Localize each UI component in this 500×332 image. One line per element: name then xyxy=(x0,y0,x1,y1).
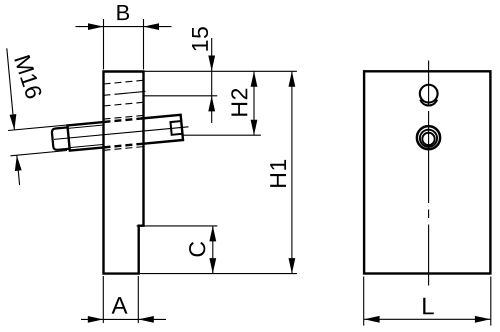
dimension B: extension line right xyxy=(143,19,145,70)
dimension H1: lower arrow (down) xyxy=(289,258,296,274)
dimension M16: lower arrow xyxy=(15,155,22,171)
top edge extension line to the right xyxy=(145,70,297,72)
front view: plate rectangle xyxy=(364,71,490,273)
dimension L: right arrow xyxy=(475,316,491,323)
front view: lower hole outer circle xyxy=(417,126,440,149)
dimension M16: upper tail line xyxy=(7,48,15,130)
dimension M16: extension line top (screw top edge extended) xyxy=(8,125,67,131)
dimension M16: lower tail line xyxy=(17,155,20,185)
dimension A: right arrow xyxy=(138,316,154,323)
dimension L: label L xyxy=(423,298,434,315)
dimension L: dimension line xyxy=(364,318,490,320)
upper threaded hole hidden line (bottom) xyxy=(104,102,144,106)
screw body left section xyxy=(67,122,106,151)
bottom edge extension line to the right xyxy=(140,273,297,275)
dimension L: extension line right xyxy=(490,277,492,326)
dimension A: label A xyxy=(112,297,128,314)
front view: screw end circle xyxy=(420,130,437,147)
dimension 15: lower arrow (up) xyxy=(208,96,215,112)
upper threaded hole hidden line (top) xyxy=(104,80,144,84)
dimension A: left arrow xyxy=(88,316,104,323)
dimension 15: dimension line xyxy=(211,38,213,123)
front view: vertical centerline (dash-dot) xyxy=(428,61,430,286)
dimension B: dimension line xyxy=(76,26,172,28)
front view: socket circle xyxy=(422,133,434,145)
screw dog point pad xyxy=(52,127,70,150)
dimension M16: upper arrow xyxy=(10,114,17,130)
dimension B: extension line left xyxy=(103,19,105,70)
dimension 15: upper arrow (down) xyxy=(208,56,215,72)
screw thread root line top xyxy=(68,125,103,128)
dimension 15: extension line at hole axis xyxy=(145,95,218,97)
screw top edge hidden in plate xyxy=(104,118,144,122)
front view: upper hole far-side arc xyxy=(420,100,437,106)
dimension C: upper arrow (up) xyxy=(209,226,216,242)
dimension H1: dimension line xyxy=(291,71,293,273)
dimension H2: lower arrow (down) xyxy=(251,120,258,136)
dimension M16: label M16 xyxy=(14,55,42,100)
dimension B: right arrow xyxy=(144,23,160,30)
upper threaded hole hidden line (middle) xyxy=(104,94,123,96)
lower hole thread crest hidden line (top) xyxy=(104,115,144,119)
dimension C: extension line at step xyxy=(137,225,218,227)
screw M16 (rotated group) xyxy=(51,114,189,152)
front view: upper hole circle xyxy=(420,85,438,103)
screw body right section with end face xyxy=(141,115,183,144)
dimension H2: extension line at screw axis xyxy=(184,134,261,136)
dimension A: dimension line xyxy=(81,318,166,320)
screw bottom edge hidden in plate xyxy=(104,144,144,148)
dimension L: extension line left xyxy=(363,277,365,326)
lower hole thread crest hidden line (bottom) xyxy=(104,147,144,151)
dimension C: lower arrow (down) xyxy=(209,258,216,274)
dimension C: label C xyxy=(189,242,205,257)
screw thread root line bottom xyxy=(70,144,105,147)
dimension B: left arrow xyxy=(88,23,104,30)
dimension C: dimension line xyxy=(212,226,214,274)
dimension A: extension line right xyxy=(137,276,139,323)
dimension H1: upper arrow (up) xyxy=(289,71,296,87)
dimension H2: label H2 xyxy=(231,89,247,116)
dimension B: label B xyxy=(117,5,129,20)
dimension A: extension line left xyxy=(102,276,104,323)
dimension H1: label H1 xyxy=(270,160,286,187)
hex socket xyxy=(170,121,182,135)
dimension H2: upper arrow (up) xyxy=(251,71,258,87)
dimension 15: label 15 xyxy=(192,27,208,50)
side view: plate outline xyxy=(102,71,144,274)
dimension L: left arrow xyxy=(364,316,380,323)
dimension H2: dimension line xyxy=(253,71,255,135)
dimension M16: extension line bottom (screw bottom edge extended) xyxy=(11,151,68,156)
screw axis centerline xyxy=(54,127,189,140)
